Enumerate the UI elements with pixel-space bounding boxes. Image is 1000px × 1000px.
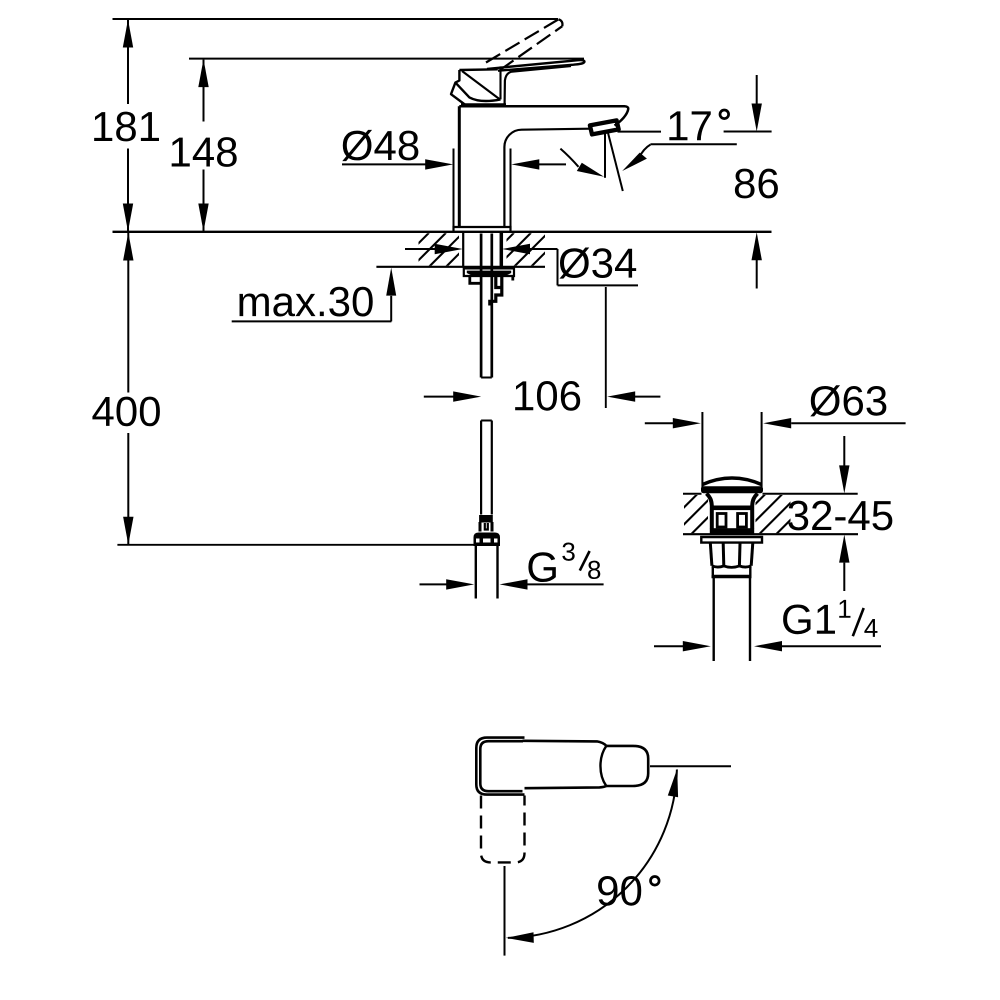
right arc arrowhead bbox=[622, 153, 647, 171]
handle lever (solid) bbox=[451, 60, 584, 105]
extension line 400 bottom bbox=[117, 544, 473, 546]
extension line 106 right (from Ø34 underline) bbox=[605, 287, 607, 408]
arc arrowhead bottom bbox=[506, 932, 534, 943]
dimension 181 bbox=[94, 20, 159, 232]
pull-rod step bracket bbox=[490, 276, 502, 306]
dimension 86 bbox=[724, 75, 778, 289]
knuckle crease bbox=[462, 71, 500, 100]
dimension max.30 bbox=[232, 268, 397, 322]
extension line lever height bbox=[189, 58, 584, 60]
handle top view: lever blade and end cap bbox=[523, 741, 649, 788]
spout angle 17 degrees bbox=[560, 132, 736, 191]
lever blade shadow line and knee bbox=[505, 66, 571, 104]
waste locknut bbox=[710, 543, 753, 568]
vertical reference line bbox=[604, 133, 606, 178]
faucet body bbox=[454, 106, 629, 232]
extension line top (raised lever height) bbox=[113, 18, 559, 20]
knuckle facet vertical bbox=[499, 66, 501, 99]
arc arrowhead top bbox=[668, 769, 678, 798]
counter hatch bbox=[395, 233, 565, 267]
connector tube below bbox=[476, 546, 498, 599]
90 degree horizontal reference bbox=[650, 765, 731, 767]
mounting nut bbox=[470, 276, 513, 283]
waste tailpipe bbox=[714, 578, 750, 662]
dimension Ø63 bbox=[645, 385, 906, 489]
left arc bbox=[560, 149, 578, 167]
dimension G1 1/4 bbox=[654, 600, 881, 651]
knuckle bottom line bbox=[461, 103, 506, 106]
handle top view: knob rotated (dashed) bbox=[481, 796, 525, 863]
handle top view: centerline bbox=[504, 866, 506, 956]
handle top view: knuckle bbox=[476, 738, 524, 795]
dimension 148 bbox=[172, 59, 237, 231]
lever blade bbox=[487, 60, 584, 71]
knuckle top edge bbox=[459, 68, 497, 71]
basin top line bbox=[683, 493, 702, 495]
dimension Ø34 bbox=[405, 244, 638, 286]
aerator bbox=[590, 120, 619, 134]
dimension 106 bbox=[424, 381, 661, 411]
knuckle belly bbox=[455, 83, 500, 101]
handle raised (dashed) bbox=[486, 19, 562, 70]
hose connector crimp bbox=[480, 516, 493, 532]
dimension G 3/8 bbox=[420, 542, 604, 589]
G3/8 connector nut bbox=[474, 533, 501, 547]
dimension Ø48 bbox=[342, 130, 566, 227]
waste ring bbox=[712, 567, 752, 577]
counter bottom line bbox=[376, 266, 545, 268]
supply hose walls bbox=[481, 234, 492, 515]
slanted stream line bbox=[608, 132, 623, 191]
pillar left edge bbox=[458, 106, 461, 227]
label 90 degrees bbox=[598, 876, 617, 906]
spout underside bbox=[504, 129, 590, 147]
dimension 400 bbox=[92, 233, 159, 545]
shank through counter bbox=[463, 232, 501, 267]
body top and spout nose bbox=[459, 106, 628, 125]
left arc arrowhead bbox=[577, 163, 604, 177]
label underline bbox=[650, 143, 736, 145]
dimension 32-45 bbox=[788, 436, 892, 591]
label 17 degrees bbox=[669, 111, 687, 140]
waste body neck and slots bbox=[707, 494, 758, 534]
basin bottom line bbox=[683, 533, 858, 535]
90 degree arc bbox=[508, 770, 677, 938]
knuckle left edge and spike bbox=[451, 70, 465, 105]
counter top line bbox=[113, 231, 772, 233]
pillar right edge bbox=[503, 147, 505, 227]
mounting washer below counter bbox=[464, 268, 514, 276]
pop-up waste cap bbox=[701, 478, 763, 493]
base plate bbox=[454, 227, 511, 232]
basin hatch bbox=[640, 494, 816, 534]
leader from aerator to label bbox=[618, 131, 662, 133]
waste washer below basin bbox=[701, 537, 762, 543]
right arc bbox=[639, 145, 651, 159]
